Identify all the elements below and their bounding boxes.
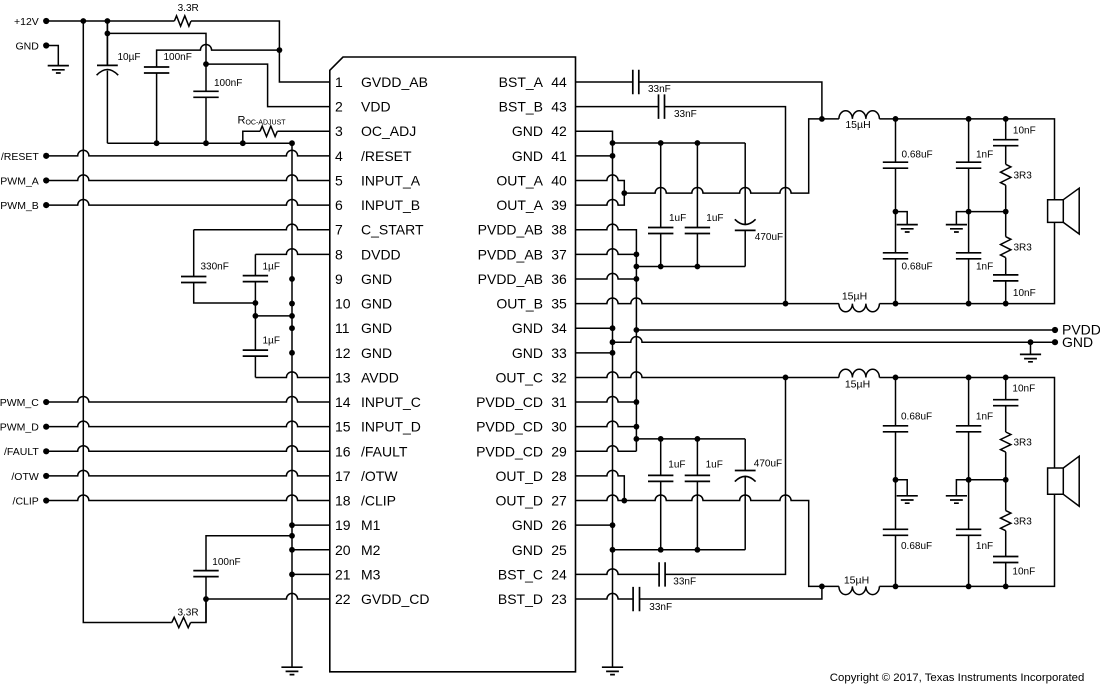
wire OUT_D pin 27 — [576, 495, 625, 501]
junction BST_C bootstrap — [783, 375, 789, 381]
node PWM_A input terminal — [43, 177, 49, 183]
junction dots OUT_D — [621, 498, 824, 590]
wire /CLIP to pin 18 — [46, 495, 330, 501]
svg-text:3R3: 3R3 — [1014, 438, 1033, 449]
svg-text:18: 18 — [335, 493, 351, 509]
node /RESET input terminal — [43, 153, 49, 159]
capacitor 10nF (C/D bottom) — [1005, 531, 1007, 557]
wire +12V drop to bottom 3.3R — [83, 21, 172, 623]
wire + ground (A/B 0.68uF midpoint) — [896, 212, 908, 225]
svg-text:GVDD_CD: GVDD_CD — [361, 591, 429, 607]
junction dots PVDD bus — [634, 251, 640, 441]
svg-text:0.68uF: 0.68uF — [902, 262, 933, 273]
resistor 3R3 (C/D bottom) — [1005, 480, 1007, 511]
svg-text:/CLIP: /CLIP — [361, 493, 396, 509]
wire PWM_C to pin 14 — [46, 396, 330, 402]
wire OUT_C filtered node — [879, 377, 1054, 468]
pin 21 M3 — [335, 566, 381, 582]
svg-text:330nF: 330nF — [201, 261, 229, 272]
ground (input GND) — [48, 66, 69, 73]
svg-text:25: 25 — [551, 542, 567, 558]
svg-text:10nF: 10nF — [1013, 288, 1036, 299]
svg-text:27: 27 — [551, 493, 567, 509]
junction A/B filter mid left — [893, 209, 899, 215]
pin 1 GVDD_AB — [335, 74, 428, 90]
pin 37 PVDD_AB — [478, 246, 567, 262]
pin 36 PVDD_AB — [478, 271, 567, 287]
junction dots on +12V rail — [80, 18, 110, 24]
svg-text:1uF: 1uF — [706, 213, 723, 224]
pin 13 AVDD — [335, 369, 399, 385]
wire AVDD to pin 13 — [255, 372, 329, 378]
svg-text:GND: GND — [15, 40, 39, 52]
pin 22 GVDD_CD — [335, 591, 429, 607]
pin 23 BST_D — [498, 591, 567, 607]
node PWM_B input terminal — [43, 202, 49, 208]
wire PVDD pin row 15 — [576, 421, 637, 427]
svg-text:7: 7 — [335, 222, 343, 238]
svg-text:8: 8 — [335, 246, 343, 262]
capacitor 33nF (BST_B) — [659, 94, 665, 118]
capacitor 1uF (PVDD_AB #2) — [696, 143, 698, 228]
wire /OTW to pin 17 — [46, 470, 330, 476]
node PWM_D input terminal — [43, 424, 49, 430]
svg-text:40: 40 — [551, 172, 567, 188]
svg-text:BST_C: BST_C — [498, 566, 543, 582]
resistor R_OC-ADJUST (pin 3) — [243, 131, 260, 143]
wire BST_B (pin 43) — [576, 107, 786, 304]
pin 15 INPUT_D — [335, 419, 421, 435]
wire OUT_B filtered node — [879, 222, 1054, 303]
wire PWM_B to pin 6 — [46, 200, 330, 206]
svg-text:37: 37 — [551, 246, 567, 262]
pin 14 INPUT_C — [335, 394, 421, 410]
svg-text:GND: GND — [512, 123, 543, 139]
svg-text:PWM_C: PWM_C — [0, 397, 39, 409]
junction dots bottom rail — [658, 264, 701, 270]
pin 32 OUT_C — [496, 369, 567, 385]
svg-text:BST_A: BST_A — [499, 74, 544, 90]
junction 330nF/1µF common — [253, 300, 259, 319]
svg-text:15: 15 — [335, 419, 351, 435]
svg-text:INPUT_A: INPUT_A — [361, 172, 421, 188]
capacitor 1nF (A/B bottom) — [956, 253, 981, 259]
svg-text:/OTW: /OTW — [361, 468, 398, 484]
capacitor 0.68uF (A/B bottom) — [883, 253, 908, 259]
wire GND terminal lead — [46, 46, 58, 66]
capacitor 100nF (VDD decoupling) — [205, 64, 207, 91]
svg-text:10nF: 10nF — [1012, 383, 1035, 394]
svg-text:PVDD_AB: PVDD_AB — [478, 246, 543, 262]
svg-text:6: 6 — [335, 197, 343, 213]
svg-text:PWM_B: PWM_B — [0, 200, 39, 212]
svg-text:GND: GND — [512, 148, 543, 164]
junction dots OUT_A — [621, 116, 824, 196]
wire left GND bus — [291, 143, 293, 666]
wire C/D cap group top rail (PVDD) — [636, 438, 745, 440]
svg-text:20: 20 — [335, 542, 351, 558]
pin 44 BST_A — [499, 74, 567, 90]
svg-text:OUT_A: OUT_A — [496, 172, 543, 188]
capacitor 1nF (C/D top) — [968, 377, 970, 425]
wire GND pin 41 — [576, 155, 613, 157]
svg-text:M1: M1 — [361, 517, 381, 533]
svg-text:33nF: 33nF — [674, 109, 697, 120]
svg-text:PVDD_AB: PVDD_AB — [478, 222, 543, 238]
svg-text:44: 44 — [551, 74, 567, 90]
svg-text:BST_B: BST_B — [499, 99, 543, 115]
svg-text:39: 39 — [551, 197, 567, 213]
wire PVDD pin row 14 — [576, 396, 637, 402]
wire VDD branch to pin 2 — [107, 33, 329, 106]
wire OUT_C (pin 32) to filter — [576, 372, 839, 378]
svg-text:OUT_D: OUT_D — [496, 468, 543, 484]
pin 6 INPUT_B — [335, 197, 420, 213]
pin 24 BST_C — [498, 566, 567, 582]
svg-text:12: 12 — [335, 345, 351, 361]
svg-text:21: 21 — [335, 566, 351, 582]
capacitor 10nF (A/B top) — [1005, 119, 1007, 140]
wire PVDD pin row 8 — [576, 249, 637, 255]
junction dots OUT_C node — [893, 375, 1009, 381]
wire PVDD output line — [636, 329, 1055, 331]
svg-text:10: 10 — [335, 296, 351, 312]
svg-text:31: 31 — [551, 394, 567, 410]
junction dots ground rail — [154, 140, 295, 146]
svg-text:32: 32 — [551, 369, 567, 385]
svg-text:3R3: 3R3 — [1014, 243, 1033, 254]
wire GND pin 26 — [576, 524, 613, 526]
wire OUT_A pin 40 — [576, 175, 625, 193]
svg-text:3: 3 — [335, 123, 343, 139]
wire M2 (pin 20) to GND bus — [292, 549, 330, 551]
svg-text:1uF: 1uF — [668, 459, 685, 470]
svg-text:GND: GND — [361, 345, 392, 361]
inductor 15µH (channel A) — [839, 111, 880, 119]
pin 17 /OTW — [335, 468, 398, 484]
svg-text:35: 35 — [551, 296, 567, 312]
svg-text:4: 4 — [335, 148, 343, 164]
junction GND-line ground stub — [1028, 339, 1034, 345]
svg-text:1nF: 1nF — [976, 541, 993, 552]
node /FAULT input terminal — [43, 448, 49, 454]
svg-text:2: 2 — [335, 99, 343, 115]
pin 33 GND — [512, 345, 567, 361]
wire PWM_D to pin 15 — [46, 421, 330, 427]
svg-text:OC_ADJ: OC_ADJ — [361, 123, 416, 139]
svg-text:9: 9 — [335, 271, 343, 287]
svg-text:0.68uF: 0.68uF — [901, 541, 932, 552]
svg-text:OUT_C: OUT_C — [496, 369, 543, 385]
svg-text:41: 41 — [551, 148, 567, 164]
wire BST_D (pin 23) — [576, 586, 822, 599]
capacitor 33nF (BST_D) — [633, 587, 639, 611]
capacitor 470uF (PVDD_CD bulk, polarized) — [744, 439, 746, 471]
svg-text:10µF: 10µF — [118, 52, 141, 63]
ground (PVDD return) — [1020, 354, 1041, 361]
junction dots right GND bus — [610, 140, 616, 553]
junction dots OUT_D node — [893, 584, 1009, 590]
wire C/D Zobel link — [969, 479, 1006, 481]
junction A/B Zobel mid — [1003, 209, 1009, 215]
wire OUT_B (pin 35) to filter — [576, 298, 839, 304]
svg-text:GND: GND — [361, 296, 392, 312]
svg-text:/FAULT: /FAULT — [361, 443, 408, 459]
inductor 15µH (channel C) — [839, 369, 880, 377]
wire GND pin 33 — [576, 352, 613, 354]
wire + ground (C/D 0.68uF midpoint) — [896, 480, 908, 496]
pin 9 GND — [335, 271, 392, 287]
svg-text:3.3R: 3.3R — [177, 608, 198, 619]
svg-text:Copyright © 2017, Texas Instru: Copyright © 2017, Texas Instruments Inco… — [830, 672, 1084, 684]
svg-text:15µH: 15µH — [842, 291, 867, 303]
wire C/D cap group bottom rail (GND) — [613, 549, 746, 551]
pin 12 GND — [335, 345, 392, 361]
svg-text:GND: GND — [361, 271, 392, 287]
ground (left bus) — [281, 667, 302, 674]
speaker LS1 (channel A/B) — [1048, 188, 1080, 234]
svg-text:5: 5 — [335, 172, 343, 188]
junction dots left GND bus — [289, 276, 295, 577]
resistor 3R3 (A/B top) — [1001, 164, 1011, 185]
capacitor 33nF (BST_A) — [633, 70, 639, 94]
wire right GND bus (pins 42,41,34,33,26,25) — [576, 131, 613, 666]
svg-text:M3: M3 — [361, 566, 381, 582]
svg-text:+12V: +12V — [14, 16, 39, 28]
junction dots C/D top rail — [658, 436, 701, 442]
svg-text:3R3: 3R3 — [1014, 517, 1033, 528]
svg-text:36: 36 — [551, 271, 567, 287]
wire PWM_A to pin 5 — [46, 175, 330, 181]
wire BST_C (pin 24) — [576, 377, 786, 574]
node PWM_C input terminal — [43, 399, 49, 405]
capacitor 1uF (PVDD_CD #1) — [660, 439, 662, 476]
wire + ground (A/B 1nF midpoint) — [956, 212, 968, 225]
node /CLIP input terminal — [43, 497, 49, 503]
wire GVDD_AB feed to pin 1 — [191, 21, 330, 82]
svg-text:33nF: 33nF — [649, 602, 672, 613]
svg-text:11: 11 — [335, 320, 350, 336]
svg-text:38: 38 — [551, 222, 567, 238]
svg-text:/FAULT: /FAULT — [4, 446, 39, 458]
ground (A/B mid center) — [946, 225, 967, 232]
capacitor 33nF (BST_C) — [659, 562, 665, 586]
wire /RESET to pin 4 — [46, 150, 330, 156]
pin 3 OC_ADJ — [335, 123, 416, 139]
svg-text:33nF: 33nF — [673, 577, 696, 588]
junction C/D Zobel mid — [1003, 477, 1009, 483]
junction dots OUT_B node — [893, 301, 1009, 307]
wire + ground (C/D 1nF midpoint) — [956, 480, 968, 496]
svg-text:AVDD: AVDD — [361, 369, 399, 385]
svg-text:INPUT_C: INPUT_C — [361, 394, 421, 410]
ground (C/D mid center) — [946, 496, 967, 503]
pin 7 C_START — [335, 222, 424, 238]
wire A/B cap group bottom rail (PVDD) — [636, 266, 745, 268]
op-amp U1 TPA32xx class-D amplifier IC body — [330, 57, 576, 672]
svg-text:100nF: 100nF — [212, 557, 240, 568]
svg-text:1nF: 1nF — [976, 411, 993, 422]
wire PVDD bus (pins 38,37,36,31,30,29) — [576, 224, 637, 451]
node GND input terminal — [43, 42, 49, 48]
svg-text:1nF: 1nF — [976, 149, 993, 160]
svg-text:OUT_B: OUT_B — [496, 296, 543, 312]
svg-text:1: 1 — [335, 74, 343, 90]
junction dots OUT_A node — [893, 116, 1009, 122]
junction GVDD decoupling tap — [277, 47, 283, 53]
svg-text:/RESET: /RESET — [1, 151, 40, 163]
svg-text:22: 22 — [335, 591, 351, 607]
wire OUT_D filtered node — [879, 494, 1054, 586]
svg-text:C_START: C_START — [361, 222, 424, 238]
pin 10 GND — [335, 296, 392, 312]
wire PVDD_CD pin 29 — [576, 446, 637, 452]
wire OUT_A pin 39 — [576, 193, 625, 205]
wire BST_A (pin 44) — [576, 82, 822, 119]
wire GVDD_CD feed (pin 22) — [206, 593, 330, 599]
node /OTW input terminal — [43, 473, 49, 479]
capacitor 1uF (PVDD_AB #1) — [660, 143, 662, 228]
svg-text:13: 13 — [335, 369, 351, 385]
wire PVDD pin row 9 — [576, 273, 637, 279]
pin 5 INPUT_A — [335, 172, 421, 188]
svg-text:1µF: 1µF — [263, 336, 280, 347]
pin 4 /RESET — [335, 148, 412, 164]
node PVDD terminal — [1052, 327, 1058, 333]
svg-text:42: 42 — [551, 123, 567, 139]
svg-text:PWM_D: PWM_D — [0, 422, 39, 434]
wire M1 (pin 19) to GND bus — [292, 524, 330, 526]
wire top-left ground rail — [107, 142, 292, 144]
capacitor 330nF (C_START) — [181, 277, 206, 283]
svg-text:14: 14 — [335, 394, 351, 410]
junction C/D filter mid center — [966, 477, 972, 483]
svg-text:19: 19 — [335, 517, 351, 533]
junction BST_B bootstrap — [783, 301, 789, 307]
svg-text:34: 34 — [551, 320, 567, 336]
svg-text:/CLIP: /CLIP — [13, 495, 39, 507]
svg-text:100nF: 100nF — [214, 78, 242, 89]
capacitor 0.68uF (C/D top) — [895, 377, 897, 425]
svg-text:DVDD: DVDD — [361, 246, 401, 262]
svg-text:470uF: 470uF — [754, 458, 782, 469]
pin 27 OUT_D — [496, 493, 567, 509]
svg-text:470uF: 470uF — [755, 232, 783, 243]
svg-text:PVDD_CD: PVDD_CD — [476, 394, 543, 410]
svg-text:10nF: 10nF — [1013, 125, 1036, 136]
pin 38 PVDD_AB — [478, 222, 567, 238]
wire M3 (pin 21) to GND bus — [292, 573, 330, 575]
capacitor 1nF (A/B top) — [968, 119, 970, 162]
wire DVDD-cap ground link — [255, 315, 292, 317]
pin 20 M2 — [335, 542, 381, 558]
capacitor 1uF (PVDD_CD #2) — [696, 439, 698, 476]
capacitor 470uF (PVDD_AB bulk, polarized) — [744, 143, 746, 224]
svg-text:GVDD_AB: GVDD_AB — [361, 74, 428, 90]
wire GND pin 34 — [576, 327, 613, 329]
capacitor 1µF (AVDD) — [254, 316, 256, 350]
capacitor 10nF (C/D top) — [1005, 377, 1007, 399]
svg-text:1nF: 1nF — [976, 262, 993, 273]
svg-text:15µH: 15µH — [844, 574, 869, 586]
svg-text:/RESET: /RESET — [361, 148, 412, 164]
wire A/B cap group top rail (GND) — [613, 142, 746, 144]
wire /FAULT to pin 16 — [46, 446, 330, 452]
resistor 3R3 (C/D top) — [1001, 432, 1011, 452]
svg-text:GND: GND — [1062, 334, 1093, 350]
svg-text:OUT_D: OUT_D — [496, 493, 543, 509]
capacitor 100nF (GVDD_CD) — [206, 536, 292, 571]
ground (A/B mid left) — [897, 225, 918, 232]
svg-text:3R3: 3R3 — [1014, 170, 1033, 181]
svg-text:100nF: 100nF — [164, 52, 192, 63]
junction dots C/D bottom rail — [658, 547, 701, 553]
pin 39 OUT_A — [496, 197, 567, 213]
pin 34 GND — [512, 320, 567, 336]
node +12V input terminal — [43, 18, 49, 24]
svg-text:PWM_A: PWM_A — [0, 175, 39, 187]
resistor 3R3 (A/B bottom) — [1005, 212, 1007, 237]
speaker LS2 (channel C/D) — [1048, 456, 1080, 506]
capacitor 100nF (GVDD_AB decoupling) — [157, 44, 280, 67]
svg-text:BST_D: BST_D — [498, 591, 543, 607]
inductor 15µH (channel D) — [839, 586, 880, 594]
pin 43 BST_B — [499, 99, 567, 115]
inductor 15µH (channel B) — [839, 304, 880, 312]
svg-text:GND: GND — [512, 542, 543, 558]
pin 25 GND — [512, 542, 567, 558]
junction VDD branch — [105, 31, 111, 37]
svg-text:VDD: VDD — [361, 99, 391, 115]
wire OUT_A rail to LC filter — [624, 119, 839, 193]
svg-text:26: 26 — [551, 517, 567, 533]
resistor 3.3R (GVDD_CD feed) — [172, 617, 191, 627]
svg-text:/OTW: /OTW — [11, 471, 38, 483]
wire GND stub — [1030, 342, 1032, 354]
svg-text:GND: GND — [512, 345, 543, 361]
svg-text:1uF: 1uF — [706, 459, 723, 470]
wire C_START (pin 7) — [193, 230, 195, 277]
pin 41 GND — [512, 148, 567, 164]
junction dots top rail — [658, 140, 701, 146]
svg-text:17: 17 — [335, 468, 351, 484]
pin 26 GND — [512, 517, 567, 533]
pin 31 PVDD_CD — [476, 394, 567, 410]
junction 100nF#2 top — [203, 61, 209, 67]
svg-text:15µH: 15µH — [845, 378, 870, 390]
svg-text:INPUT_B: INPUT_B — [361, 197, 420, 213]
svg-text:28: 28 — [551, 468, 567, 484]
pin 8 DVDD — [335, 246, 401, 262]
svg-text:43: 43 — [551, 99, 567, 115]
svg-text:0.68uF: 0.68uF — [902, 149, 933, 160]
svg-text:16: 16 — [335, 443, 351, 459]
svg-text:GND: GND — [512, 320, 543, 336]
svg-text:24: 24 — [551, 566, 567, 582]
svg-text:15µH: 15µH — [845, 119, 870, 131]
svg-text:1uF: 1uF — [669, 213, 686, 224]
svg-text:29: 29 — [551, 443, 567, 459]
ground (C/D mid left) — [897, 496, 918, 503]
svg-text:30: 30 — [551, 419, 567, 435]
junction GVDD_CD node — [203, 596, 209, 602]
svg-text:PVDD_CD: PVDD_CD — [476, 443, 543, 459]
svg-text:33nF: 33nF — [648, 84, 671, 95]
wire GND output line — [613, 337, 1056, 343]
svg-text:GND: GND — [361, 320, 392, 336]
pin 35 OUT_B — [496, 296, 567, 312]
svg-text:PVDD_AB: PVDD_AB — [478, 271, 543, 287]
